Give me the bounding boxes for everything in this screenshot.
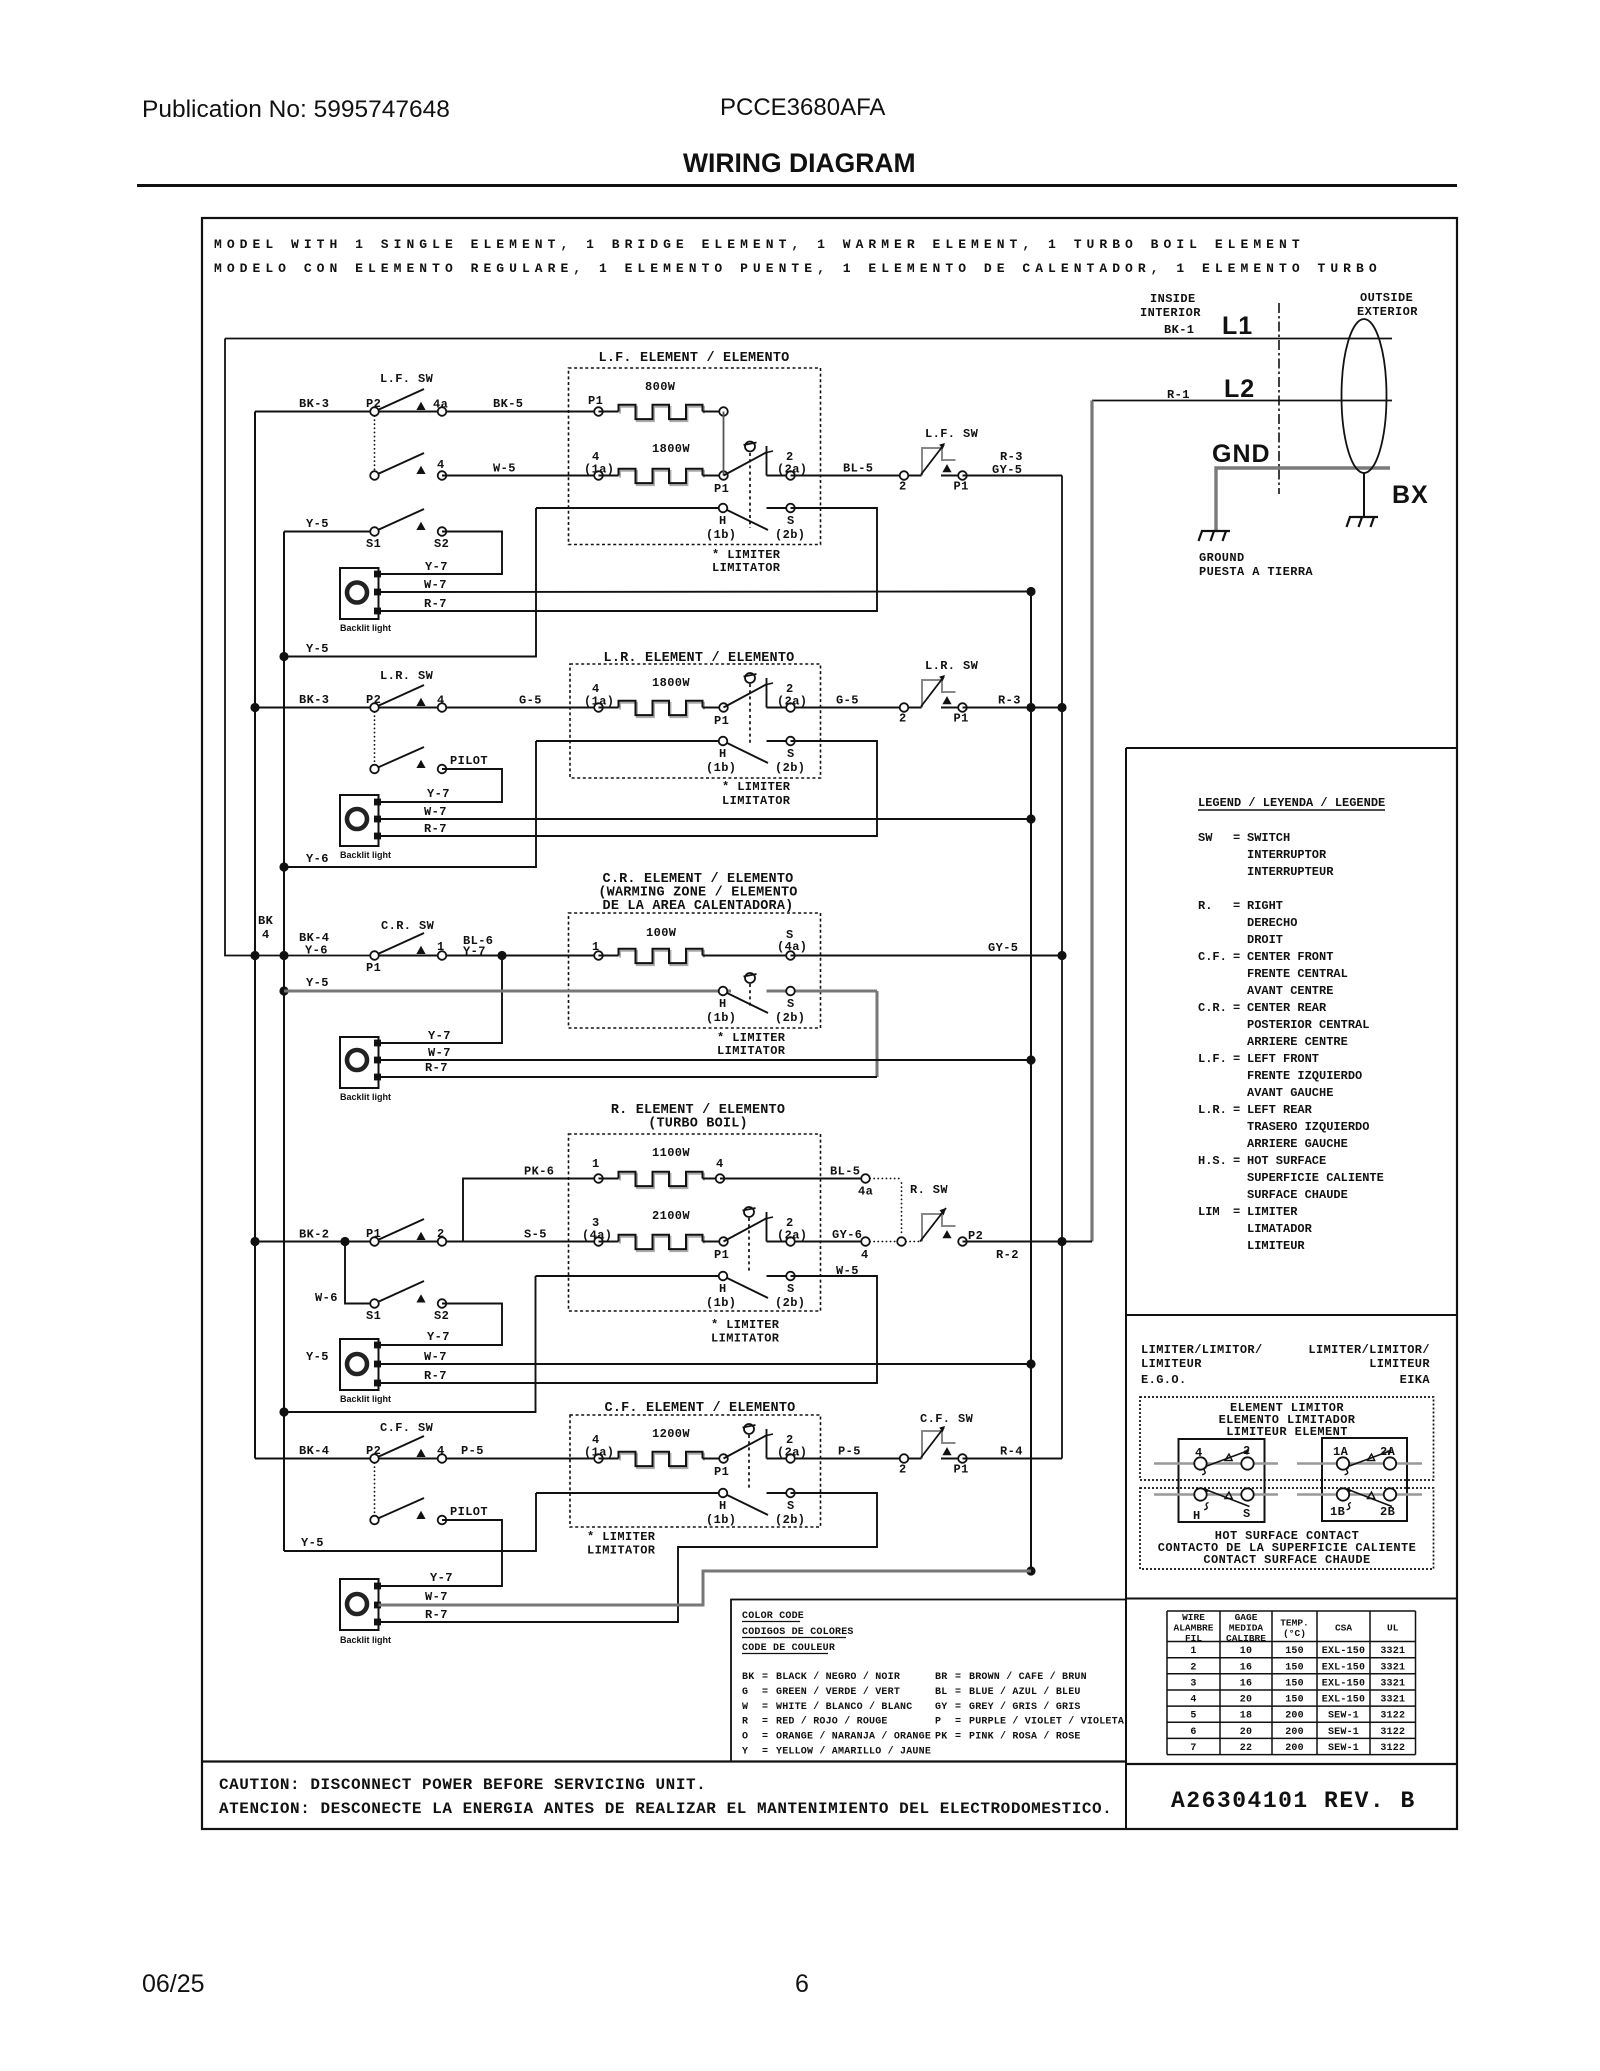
svg-text:GND: GND: [1212, 440, 1271, 468]
svg-text:=: =: [1233, 1205, 1240, 1219]
svg-text:P1: P1: [954, 1463, 969, 1477]
svg-text:W: W: [742, 1702, 748, 1713]
svg-text:LEFT REAR: LEFT REAR: [1247, 1103, 1313, 1117]
wire BK bus: [254, 412, 256, 1459]
svg-text:10: 10: [1240, 1646, 1252, 1657]
svg-text:Y-7: Y-7: [425, 560, 448, 574]
element L.R. 1800W: [594, 703, 603, 712]
svg-text:4: 4: [437, 694, 445, 708]
svg-text:(4a): (4a): [777, 940, 807, 954]
svg-text:1800W: 1800W: [652, 442, 690, 456]
svg-text:H: H: [719, 997, 727, 1011]
svg-text:200: 200: [1285, 1727, 1304, 1738]
svg-text:Publication No: 5995747648: Publication No: 5995747648: [142, 96, 450, 123]
svg-text:L.F.: L.F.: [1198, 1052, 1227, 1066]
svg-text:CODIGOS DE COLORES: CODIGOS DE COLORES: [742, 1627, 854, 1638]
svg-text:P2: P2: [366, 693, 381, 707]
wire W-5 row2 to element: [442, 475, 599, 477]
terminal 2: [900, 471, 909, 480]
svg-text:LIMITATOR: LIMITATOR: [712, 561, 781, 575]
thermal switch bracket: [922, 1431, 942, 1459]
svg-text:H: H: [1193, 1509, 1201, 1523]
thermal switch blade: [904, 707, 922, 709]
svg-text:* LIMITER: * LIMITER: [711, 1318, 780, 1332]
terminal P1: [958, 1454, 967, 1463]
svg-text:GY-5: GY-5: [992, 463, 1022, 477]
svg-text:=: =: [1233, 1103, 1240, 1117]
svg-text:FRENTE IZQUIERDO: FRENTE IZQUIERDO: [1247, 1069, 1362, 1083]
wire W-7 R block: [379, 1363, 1032, 1365]
svg-text:200: 200: [1285, 1743, 1304, 1754]
wire PILOT to backlit Y-7: [379, 769, 503, 802]
svg-text:DERECHO: DERECHO: [1247, 916, 1297, 930]
element C.R. 100W: [594, 951, 603, 960]
svg-text:(2a): (2a): [777, 1446, 807, 1460]
svg-text:INSIDE: INSIDE: [1150, 292, 1196, 306]
svg-text:16: 16: [1240, 1662, 1252, 1673]
limiter H/S contacts L.F.: [536, 507, 723, 509]
caution divider: [202, 1760, 1126, 1762]
thermal switch blade: [904, 475, 922, 477]
svg-text:EIKA: EIKA: [1400, 1373, 1431, 1387]
ground symbol house ground: [1201, 530, 1230, 532]
svg-text:R: R: [742, 1717, 748, 1728]
svg-text:L1: L1: [1222, 312, 1253, 340]
svg-text:100W: 100W: [646, 926, 677, 940]
limiter switch L.R. (2a): [724, 684, 768, 708]
svg-text:LIMITATOR: LIMITATOR: [587, 1544, 656, 1558]
svg-text:ATENCION: DESCONECTE LA ENERGI: ATENCION: DESCONECTE LA ENERGIA ANTES DE…: [219, 1800, 1112, 1818]
svg-text:GY-5: GY-5: [988, 941, 1018, 955]
svg-text:BK: BK: [742, 1672, 754, 1683]
svg-text:BL-5: BL-5: [843, 462, 873, 476]
svg-text:(2b): (2b): [775, 1011, 805, 1025]
svg-text:R.: R.: [1198, 899, 1212, 913]
svg-text:4: 4: [437, 458, 445, 472]
svg-text:PILOT: PILOT: [450, 1505, 488, 1519]
svg-text:(°C): (°C): [1283, 1628, 1306, 1639]
wire Y-7 drop to backlit C.R.: [379, 956, 503, 1044]
svg-text:22: 22: [1240, 1743, 1252, 1754]
terminal 4 R block: [861, 1237, 870, 1246]
limiter switch C.F. (2a): [724, 1435, 768, 1459]
svg-text:BL: BL: [935, 1687, 947, 1698]
svg-text:S1: S1: [366, 537, 381, 551]
svg-text:3321: 3321: [1380, 1646, 1405, 1657]
limiter H/S contacts L.R.: [536, 740, 723, 742]
svg-text:W-7: W-7: [424, 578, 447, 592]
wire PILOT to backlit Y-7 C.F.: [379, 1520, 503, 1586]
svg-text:R-2: R-2: [996, 1248, 1019, 1262]
svg-text:Backlit light: Backlit light: [340, 850, 391, 860]
svg-text:BLACK / NEGRO / NOIR: BLACK / NEGRO / NOIR: [776, 1671, 900, 1683]
svg-text:H: H: [719, 1282, 727, 1296]
svg-text:EXL-150: EXL-150: [1322, 1678, 1365, 1689]
limiter switch L.F. (2a): [724, 452, 768, 476]
svg-text:1800W: 1800W: [652, 676, 690, 690]
svg-text:EXL-150: EXL-150: [1322, 1646, 1365, 1657]
svg-text:=: =: [1233, 831, 1240, 845]
svg-text:BLUE / AZUL / BLEU: BLUE / AZUL / BLEU: [969, 1686, 1081, 1698]
svg-text:ALAMBRE: ALAMBRE: [1174, 1623, 1214, 1634]
svg-text:P1: P1: [588, 394, 603, 408]
wire R-2 to L2 bus: [963, 1241, 1093, 1243]
thermal switch bracket: [922, 680, 942, 708]
wire H to Y bus: [284, 508, 536, 657]
wire W-7 L.R.: [379, 818, 1032, 820]
svg-text:INTERIOR: INTERIOR: [1140, 306, 1201, 320]
svg-text:S2: S2: [434, 537, 449, 551]
svg-text:* LIMITER: * LIMITER: [587, 1530, 656, 1544]
svg-text:* LIMITER: * LIMITER: [717, 1031, 786, 1045]
wire Y-5 warming limiter row: [284, 990, 731, 993]
wire GY-5 to bus: [791, 955, 1063, 957]
svg-text:Y-5: Y-5: [306, 517, 329, 531]
svg-text:W-6: W-6: [315, 1291, 338, 1305]
svg-text:LIMITATOR: LIMITATOR: [722, 794, 791, 808]
svg-text:LIMATADOR: LIMATADOR: [1247, 1222, 1313, 1236]
wire S to backlit R-7 R block: [379, 1276, 878, 1383]
wire S down to backlit R-7 C.R.: [876, 991, 879, 1077]
svg-text:2A: 2A: [1380, 1445, 1396, 1459]
switch PILOT L.R.: [375, 747, 425, 769]
svg-text:1B: 1B: [1330, 1505, 1345, 1519]
svg-text:16: 16: [1240, 1678, 1252, 1689]
switch PILOT C.F.: [375, 1498, 425, 1520]
svg-text:P1: P1: [714, 1465, 729, 1479]
svg-text:Y: Y: [742, 1747, 748, 1758]
svg-text:EXL-150: EXL-150: [1322, 1662, 1365, 1673]
svg-text:R-7: R-7: [424, 1369, 447, 1383]
wire H to Y bus C.F.: [284, 1493, 536, 1551]
svg-text:P2: P2: [366, 1444, 381, 1458]
svg-text:150: 150: [1285, 1662, 1304, 1673]
svg-text:P1: P1: [366, 961, 381, 975]
svg-text:PK: PK: [935, 1732, 947, 1743]
svg-text:P1: P1: [954, 480, 969, 494]
svg-text:2: 2: [899, 1463, 907, 1477]
svg-text:BK-3: BK-3: [299, 693, 329, 707]
svg-text:1: 1: [437, 940, 445, 954]
svg-text:* LIMITER: * LIMITER: [722, 780, 791, 794]
svg-text:WHITE / BLANCO / BLANC: WHITE / BLANCO / BLANC: [776, 1701, 912, 1713]
terminal 2: [900, 703, 909, 712]
svg-text:S: S: [787, 1282, 795, 1296]
svg-text:PK-6: PK-6: [524, 1165, 554, 1179]
svg-text:BK-2: BK-2: [299, 1228, 329, 1242]
svg-text:S1: S1: [366, 1309, 381, 1323]
svg-text:P1: P1: [366, 1227, 381, 1241]
svg-text:=: =: [955, 1687, 961, 1698]
svg-text:R-4: R-4: [1000, 1445, 1023, 1459]
svg-text:OUTSIDE: OUTSIDE: [1360, 291, 1413, 305]
color code box: [731, 1600, 1126, 1762]
svg-text:SW: SW: [1198, 831, 1213, 845]
svg-text:2100W: 2100W: [652, 1209, 690, 1223]
svg-text:H: H: [719, 747, 727, 761]
svg-text:O: O: [742, 1732, 748, 1743]
svg-text:P1: P1: [714, 482, 729, 496]
svg-text:FIL: FIL: [1185, 1633, 1202, 1644]
C.F. element dashed box: [570, 1415, 821, 1527]
terminal P1: [958, 471, 967, 480]
wire Y bus: [283, 532, 285, 1552]
svg-text:RED / ROJO / ROUGE: RED / ROJO / ROUGE: [776, 1716, 888, 1728]
svg-text:A26304101 REV. B: A26304101 REV. B: [1171, 1788, 1416, 1814]
svg-text:LIMITER: LIMITER: [1247, 1205, 1298, 1219]
limiter H/S contacts C.F.: [536, 1492, 723, 1494]
wire joining element taps: [723, 412, 725, 476]
revision block divider: [1126, 1763, 1457, 1765]
svg-text:=: =: [1233, 899, 1240, 913]
wire BL-5 to 4a: [720, 1178, 866, 1180]
diagram border frame: [202, 218, 1457, 1829]
svg-text:=: =: [762, 1702, 768, 1713]
wire R line bus: [1061, 476, 1063, 1459]
header rule: [137, 184, 1457, 187]
svg-text:R. SW: R. SW: [910, 1183, 948, 1197]
svg-text:FRENTE CENTRAL: FRENTE CENTRAL: [1247, 967, 1348, 981]
svg-text:P1: P1: [714, 714, 729, 728]
svg-text:06/25: 06/25: [142, 1970, 205, 1998]
svg-text:=: =: [762, 1717, 768, 1728]
svg-text:Y-5: Y-5: [301, 1536, 324, 1550]
element C.F. 1200W: [594, 1454, 603, 1463]
dotted link 4a to R. SW: [870, 1178, 902, 1180]
svg-text:Y-7: Y-7: [428, 1029, 451, 1043]
svg-text:BK-1: BK-1: [1164, 323, 1194, 337]
svg-text:WIRING DIAGRAM: WIRING DIAGRAM: [683, 148, 916, 178]
bus junction dots: [250, 703, 259, 712]
wire L1 drop to C.R. feed: [225, 339, 375, 956]
svg-text:2: 2: [899, 480, 907, 494]
R element dashed box: [569, 1134, 821, 1311]
svg-text:(1a): (1a): [584, 463, 614, 477]
svg-text:2: 2: [437, 1227, 445, 1241]
svg-text:1A: 1A: [1333, 1445, 1349, 1459]
svg-text:BROWN / CAFE / BRUN: BROWN / CAFE / BRUN: [969, 1671, 1087, 1683]
svg-text:R-7: R-7: [425, 1061, 448, 1075]
svg-text:BK-3: BK-3: [299, 397, 329, 411]
svg-text:C.R. SW: C.R. SW: [381, 919, 435, 933]
svg-text:SWITCH: SWITCH: [1247, 831, 1290, 845]
svg-text:1: 1: [592, 1157, 600, 1171]
svg-text:Y-5: Y-5: [306, 642, 329, 656]
svg-text:E.G.O.: E.G.O.: [1141, 1373, 1187, 1387]
svg-text:=: =: [955, 1717, 961, 1728]
svg-text:L.F. ELEMENT / ELEMENTO: L.F. ELEMENT / ELEMENTO: [599, 351, 790, 366]
svg-text:800W: 800W: [645, 380, 676, 394]
svg-text:S: S: [787, 997, 795, 1011]
ground symbol BX: [1349, 516, 1378, 518]
svg-text:W-5: W-5: [493, 462, 516, 476]
svg-text:PURPLE / VIOLET / VIOLETA: PURPLE / VIOLET / VIOLETA: [969, 1716, 1124, 1728]
svg-text:PUESTA A TIERRA: PUESTA A TIERRA: [1199, 565, 1313, 579]
element L.F. 800W: [594, 407, 603, 416]
legend box top: [1126, 747, 1457, 749]
svg-text:3122: 3122: [1380, 1711, 1405, 1722]
svg-text:BK-5: BK-5: [493, 397, 523, 411]
svg-text:R-7: R-7: [424, 822, 447, 836]
wire S2 to backlit Y-7: [379, 532, 503, 575]
svg-text:L.R. SW: L.R. SW: [925, 659, 979, 673]
svg-text:1100W: 1100W: [652, 1146, 690, 1160]
svg-text:Backlit light: Backlit light: [340, 1394, 391, 1404]
svg-text:P-5: P-5: [838, 1445, 861, 1459]
svg-text:4a: 4a: [858, 1185, 873, 1199]
svg-text:=: =: [762, 1672, 768, 1683]
svg-text:GAGE: GAGE: [1235, 1612, 1258, 1623]
svg-text:4: 4: [262, 928, 270, 942]
svg-text:(TURBO BOIL): (TURBO BOIL): [648, 1117, 748, 1132]
element R 2100W: [594, 1237, 603, 1246]
svg-text:6: 6: [1190, 1727, 1196, 1738]
svg-text:CONTACT SURFACE CHAUDE: CONTACT SURFACE CHAUDE: [1203, 1553, 1370, 1567]
svg-text:C.F. ELEMENT / ELEMENTO: C.F. ELEMENT / ELEMENTO: [605, 1401, 796, 1416]
svg-text:W-7: W-7: [428, 1046, 451, 1060]
service cable shield ellipse: [1342, 319, 1387, 473]
svg-text:P: P: [935, 1717, 941, 1728]
svg-text:H: H: [719, 1499, 727, 1513]
switch S1/S2 backlit L.F.: [284, 531, 375, 533]
limiter section divider: [1126, 1314, 1457, 1316]
svg-text:Y-6: Y-6: [306, 852, 329, 866]
svg-text:4: 4: [716, 1157, 724, 1171]
svg-text:L2: L2: [1224, 375, 1255, 403]
svg-text:3321: 3321: [1380, 1678, 1405, 1689]
svg-text:G-5: G-5: [519, 694, 542, 708]
svg-text:3122: 3122: [1380, 1727, 1405, 1738]
svg-text:LIMITER/LIMITOR/: LIMITER/LIMITOR/: [1308, 1343, 1430, 1357]
wire R-3 to bus L.R.: [963, 707, 1063, 709]
svg-text:EXL-150: EXL-150: [1322, 1695, 1365, 1706]
svg-text:CENTER REAR: CENTER REAR: [1247, 1001, 1327, 1015]
svg-text:CENTER FRONT: CENTER FRONT: [1247, 950, 1333, 964]
svg-text:3321: 3321: [1380, 1662, 1405, 1673]
svg-text:=: =: [955, 1672, 961, 1683]
wire S to backlit R-7: [379, 508, 878, 611]
svg-text:=: =: [955, 1702, 961, 1713]
svg-text:LEGEND / LEYENDA / LEGENDE: LEGEND / LEYENDA / LEGENDE: [1198, 796, 1385, 810]
svg-text:(2b): (2b): [775, 761, 805, 775]
backlit light L.F.: [340, 568, 379, 619]
backlit light C.R.: [340, 1037, 379, 1088]
svg-text:MODEL WITH 1 SINGLE ELEMENT, 1: MODEL WITH 1 SINGLE ELEMENT, 1 BRIDGE EL…: [214, 237, 1305, 252]
svg-text:Backlit light: Backlit light: [340, 1635, 391, 1645]
svg-text:SEW-1: SEW-1: [1328, 1743, 1359, 1754]
svg-text:150: 150: [1285, 1646, 1304, 1657]
svg-text:BL-5: BL-5: [830, 1165, 860, 1179]
svg-text:SEW-1: SEW-1: [1328, 1727, 1359, 1738]
backlit light L.R.: [340, 795, 379, 846]
svg-text:LIMITEUR ELEMENT: LIMITEUR ELEMENT: [1226, 1425, 1348, 1439]
svg-text:L.R. ELEMENT / ELEMENTO: L.R. ELEMENT / ELEMENTO: [604, 651, 795, 666]
right panel divider: [1125, 748, 1127, 1829]
svg-text:3122: 3122: [1380, 1743, 1405, 1754]
svg-text:(1a): (1a): [584, 1446, 614, 1460]
wire BX drop: [1363, 473, 1365, 517]
svg-text:WIRE: WIRE: [1182, 1612, 1205, 1623]
svg-text:S: S: [1243, 1507, 1251, 1521]
svg-text:(1b): (1b): [706, 1011, 736, 1025]
svg-text:GY: GY: [935, 1702, 947, 1713]
svg-text:LIMITER/LIMITOR/: LIMITER/LIMITOR/: [1141, 1343, 1263, 1357]
wire S to backlit R-7 C.F.: [379, 1493, 878, 1622]
svg-text:CODE DE COULEUR: CODE DE COULEUR: [742, 1643, 835, 1654]
limiter EGO box: [1179, 1439, 1265, 1522]
svg-text:LIMITATOR: LIMITATOR: [717, 1044, 786, 1058]
L.F. element dashed box: [569, 368, 821, 545]
svg-text:4: 4: [1195, 1446, 1203, 1460]
svg-text:=: =: [762, 1687, 768, 1698]
svg-text:LIM: LIM: [1198, 1205, 1220, 1219]
svg-text:200: 200: [1285, 1711, 1304, 1722]
svg-text:=: =: [762, 1747, 768, 1758]
svg-text:COLOR CODE: COLOR CODE: [742, 1611, 804, 1622]
limiter EGO element contacts 4-2: [1154, 1462, 1278, 1465]
thermal switch blade: [904, 1458, 922, 1460]
svg-text:INTERRUPTEUR: INTERRUPTEUR: [1247, 865, 1334, 879]
svg-text:S-5: S-5: [524, 1228, 547, 1242]
svg-text:20: 20: [1240, 1695, 1252, 1706]
svg-text:W-7: W-7: [425, 1590, 448, 1604]
wire W-7 bus: [1030, 592, 1032, 1572]
thermal switch bracket: [922, 448, 942, 476]
svg-text:1: 1: [1190, 1646, 1196, 1657]
svg-text:=: =: [1233, 1052, 1240, 1066]
svg-text:CALIBRE: CALIBRE: [1226, 1633, 1266, 1644]
table section divider: [1126, 1598, 1457, 1600]
svg-text:4: 4: [1190, 1695, 1196, 1706]
svg-text:Y-7: Y-7: [427, 1330, 450, 1344]
svg-text:150: 150: [1285, 1695, 1304, 1706]
svg-text:C.F.: C.F.: [1198, 950, 1227, 964]
svg-text:=: =: [1233, 950, 1240, 964]
svg-text:EXTERIOR: EXTERIOR: [1357, 305, 1418, 319]
svg-text:Y-7: Y-7: [427, 787, 450, 801]
svg-text:P1: P1: [714, 1248, 729, 1262]
svg-text:ORANGE / NARANJA / ORANGE: ORANGE / NARANJA / ORANGE: [776, 1731, 931, 1743]
svg-text:4: 4: [437, 1444, 445, 1458]
svg-text:L.F. SW: L.F. SW: [925, 427, 979, 441]
wire L2 bus: [1090, 401, 1093, 1242]
backlit light C.F.: [340, 1579, 379, 1630]
svg-text:G: G: [742, 1687, 748, 1698]
svg-text:(2a): (2a): [777, 695, 807, 709]
svg-text:(2b): (2b): [775, 528, 805, 542]
svg-text:C.F. SW: C.F. SW: [380, 1421, 434, 1435]
svg-text:2B: 2B: [1380, 1505, 1395, 1519]
svg-text:(2b): (2b): [775, 1296, 805, 1310]
element L.F. 1800W: [594, 471, 603, 480]
svg-text:(2a): (2a): [777, 463, 807, 477]
limiter EIKA element contacts 1A-2A: [1297, 1462, 1422, 1465]
svg-text:DE LA AREA CALENTADORA): DE LA AREA CALENTADORA): [603, 899, 794, 914]
svg-text:R-3: R-3: [1000, 450, 1023, 464]
wire H to Y bus L.R.: [284, 741, 536, 867]
svg-text:P2: P2: [366, 397, 381, 411]
svg-text:MEDIDA: MEDIDA: [1229, 1623, 1264, 1634]
svg-text:BR: BR: [935, 1672, 947, 1683]
svg-text:LIMITEUR: LIMITEUR: [1247, 1239, 1305, 1253]
svg-text:(2b): (2b): [775, 1513, 805, 1527]
svg-text:SUPERFICIE CALIENTE: SUPERFICIE CALIENTE: [1247, 1171, 1384, 1185]
svg-text:ARRIERE GAUCHE: ARRIERE GAUCHE: [1247, 1137, 1348, 1151]
svg-text:=: =: [1233, 1001, 1240, 1015]
limiter switch R (2a): [724, 1218, 768, 1242]
wire H to Y bus R: [284, 1276, 536, 1412]
svg-text:DROIT: DROIT: [1247, 933, 1283, 947]
